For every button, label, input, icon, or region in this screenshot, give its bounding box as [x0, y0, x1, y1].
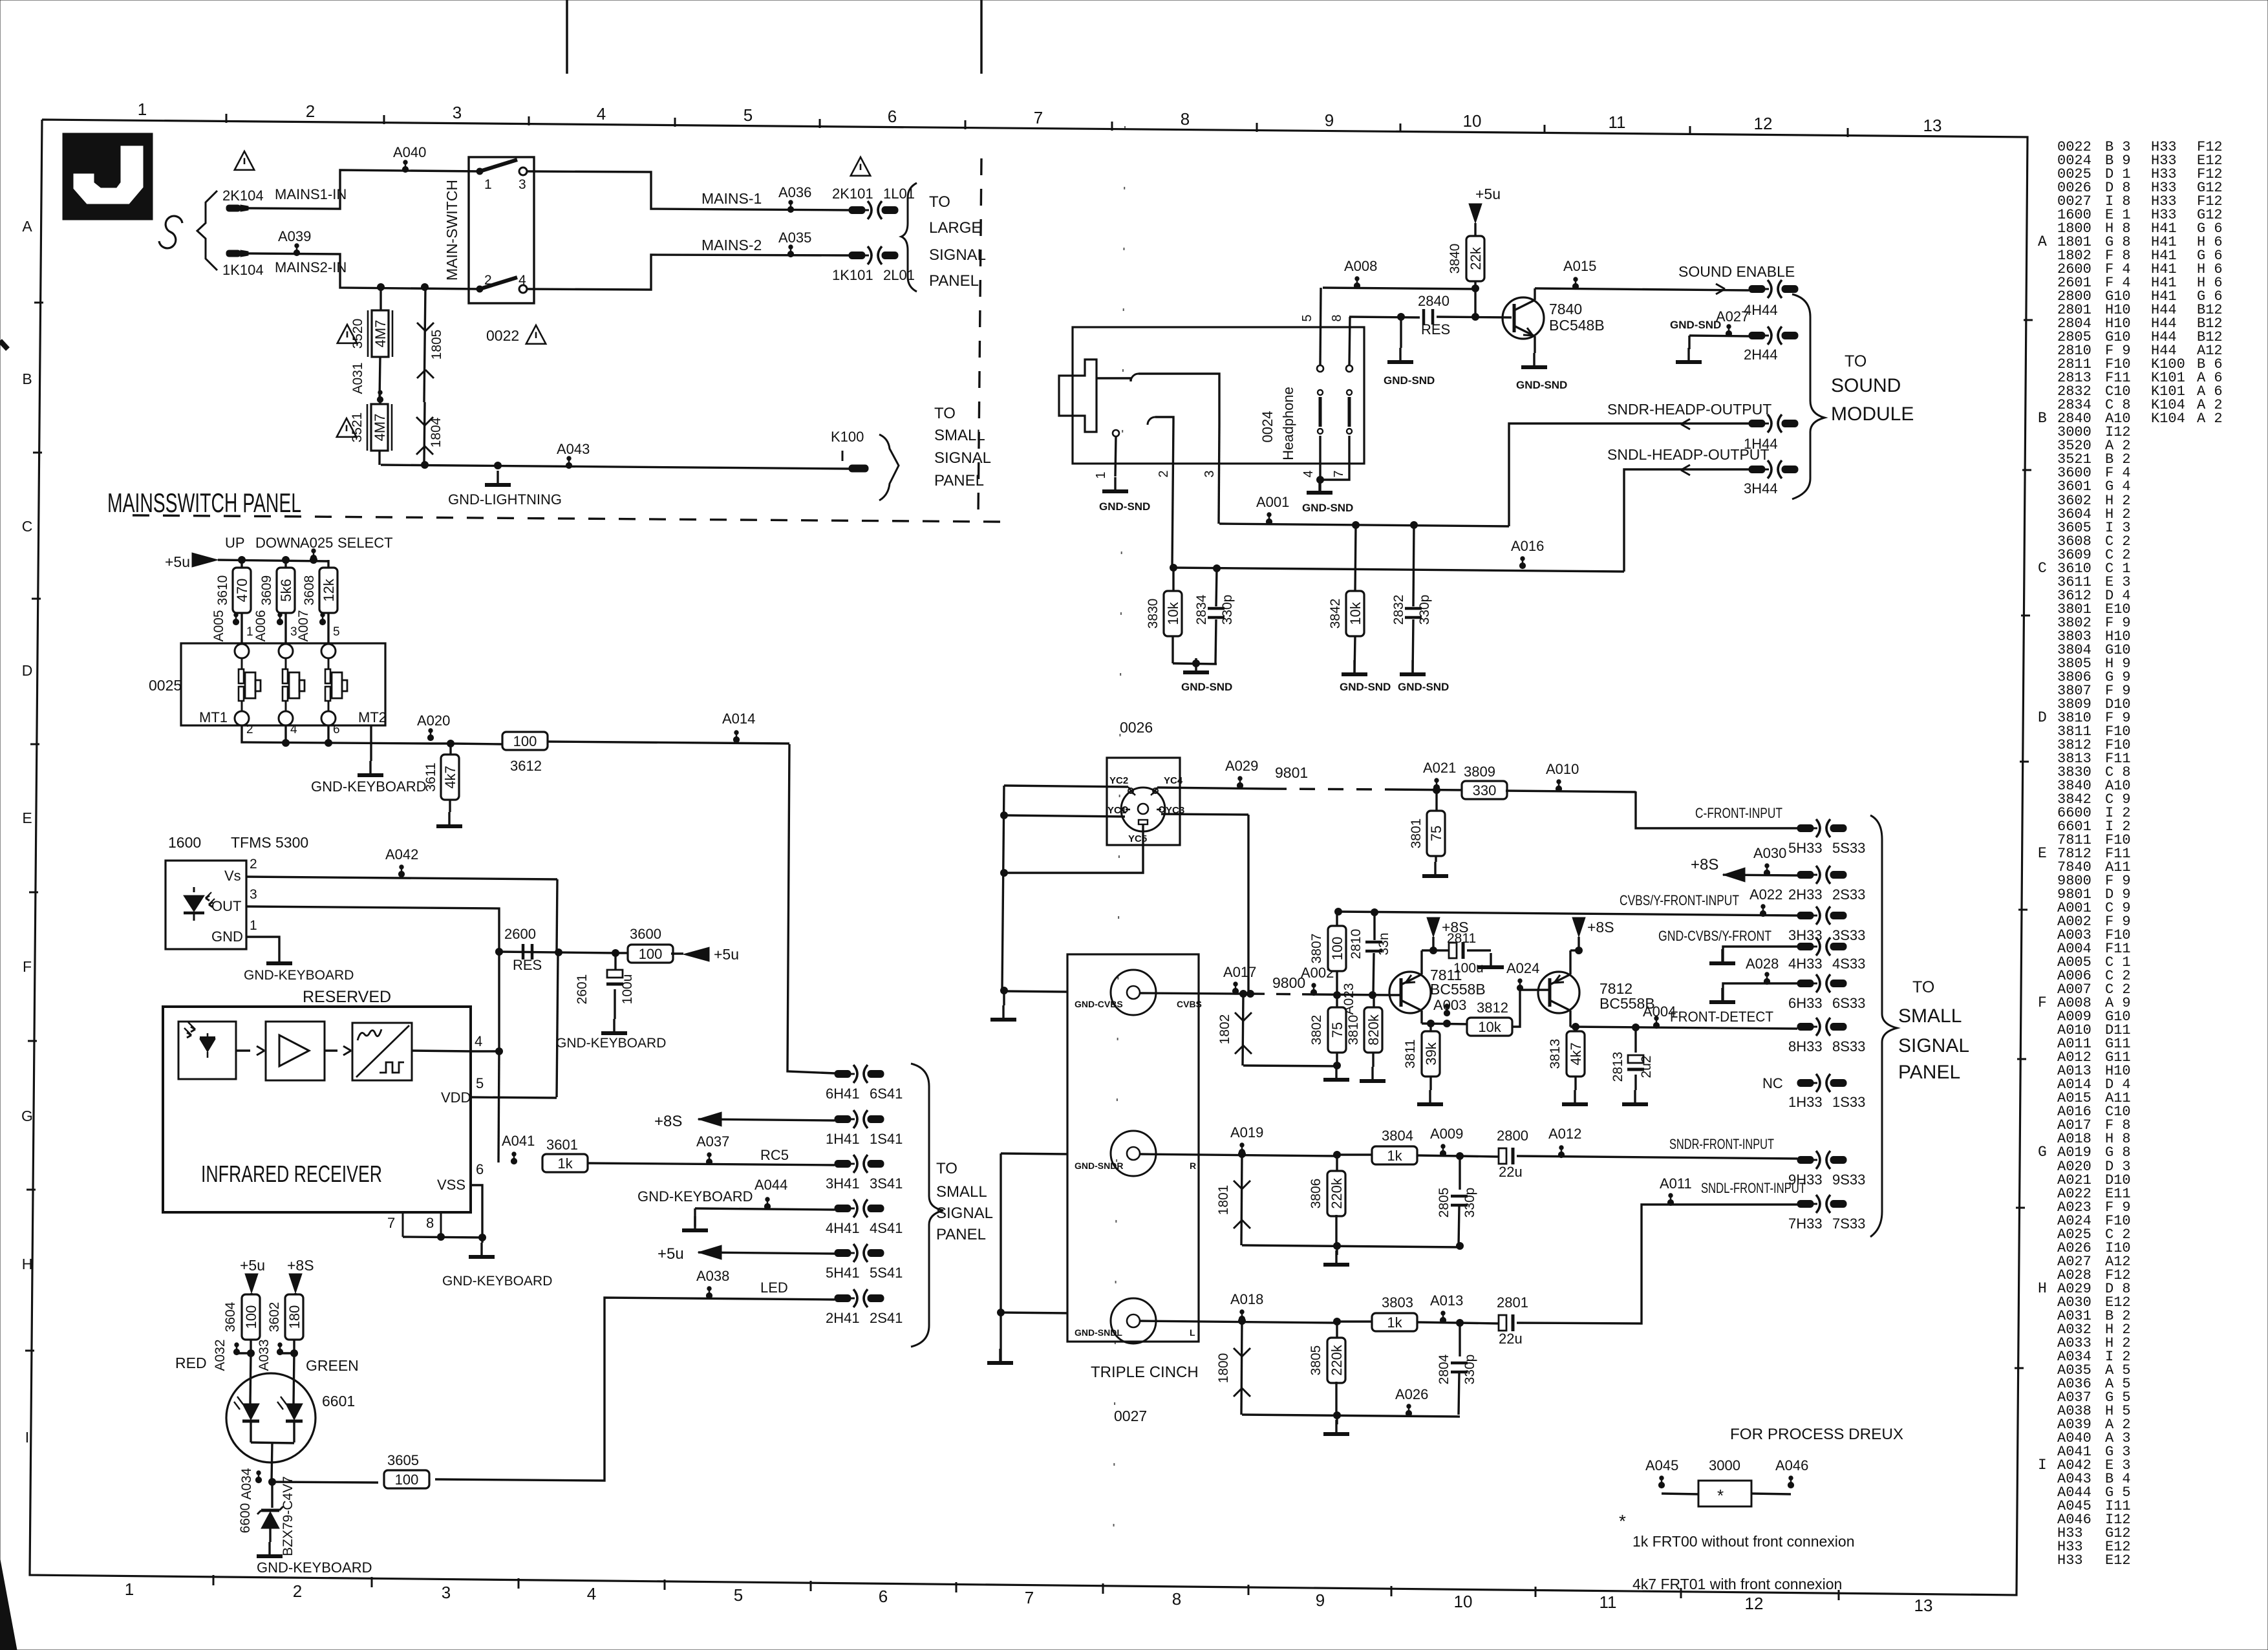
svg-text:1k: 1k	[1387, 1314, 1402, 1331]
svg-text:2K104: 2K104	[222, 187, 264, 204]
pin 2 wire	[1157, 422, 1173, 568]
node A010	[1506, 761, 1636, 792]
wire CVBS front input	[1335, 886, 1798, 917]
svg-text:220k: 220k	[1329, 1344, 1345, 1376]
svg-text:0022: 0022	[486, 327, 519, 344]
svg-text:100: 100	[243, 1305, 259, 1329]
svg-text:8: 8	[1172, 1589, 1181, 1609]
svg-text:A033: A033	[257, 1339, 272, 1371]
ground VSS	[442, 1237, 552, 1289]
connector 1H33 NC	[1762, 1074, 1865, 1110]
svg-text:A027: A027	[1716, 308, 1749, 325]
svg-text:E: E	[2038, 845, 2047, 862]
svg-text:3609: 3609	[259, 575, 274, 606]
svg-text:YC1: YC1	[1107, 805, 1126, 816]
svg-text:3802: 3802	[1309, 1015, 1324, 1045]
node A002	[1301, 965, 1389, 999]
node A043	[557, 441, 590, 469]
svg-text:A003: A003	[1433, 997, 1466, 1013]
IR sub-box demodulator	[352, 1023, 412, 1080]
node A035	[778, 230, 811, 257]
svg-text:A031: A031	[350, 362, 365, 394]
node A037 RC5	[586, 1133, 835, 1165]
wire 3605 to LED connector	[435, 1298, 835, 1481]
svg-text:4: 4	[587, 1584, 596, 1603]
svg-text:+8S: +8S	[1587, 919, 1614, 936]
svg-text:6H33: 6H33	[1788, 995, 1823, 1011]
pin 5 contact	[1300, 288, 1323, 434]
svg-text:RES: RES	[513, 957, 542, 973]
IR sub-box photodiode	[178, 1022, 236, 1079]
node A005	[211, 610, 253, 643]
sine symbol	[159, 216, 182, 248]
svg-text:12: 12	[1745, 1594, 1764, 1613]
svg-text:+5u: +5u	[1475, 186, 1501, 202]
svg-text:GND-KEYBOARD: GND-KEYBOARD	[311, 778, 426, 795]
svg-text:A045: A045	[1645, 1457, 1678, 1473]
svg-text:1801: 1801	[1216, 1185, 1231, 1216]
return line 1801	[1242, 1243, 1460, 1265]
svg-text:RESERVED: RESERVED	[303, 988, 391, 1006]
resistor 3601 1k	[542, 1137, 588, 1172]
svg-text:100: 100	[639, 946, 663, 962]
connector 3H33	[1788, 906, 1865, 943]
svg-text:1k FRT00 without front connexi: 1k FRT00 without front connexion	[1632, 1533, 1854, 1550]
svg-text:2800: 2800	[1497, 1128, 1528, 1144]
wire YC2 left	[1004, 786, 1133, 794]
reference designator list	[2038, 139, 2223, 1569]
TFMS pin labels	[211, 857, 257, 945]
svg-text:A032: A032	[213, 1339, 228, 1371]
svg-text:A043: A043	[557, 441, 590, 457]
svg-text:2805: 2805	[1437, 1188, 1451, 1218]
label MAINS-1	[701, 190, 762, 207]
svg-text:A 2: A 2	[2197, 411, 2223, 427]
svg-text:4H33: 4H33	[1788, 956, 1823, 972]
node A033	[257, 1339, 298, 1371]
svg-text:A036: A036	[778, 184, 811, 200]
svg-text:1: 1	[138, 100, 147, 119]
svg-text:DOWN: DOWN	[255, 535, 301, 551]
svg-text:22u: 22u	[1499, 1331, 1523, 1347]
+8S A030 2H33	[1691, 845, 1797, 882]
label C-FRONT-INPUT	[1695, 805, 1782, 821]
hosiden labels	[1107, 775, 1184, 844]
svg-text:*: *	[1717, 1486, 1724, 1505]
svg-text:3S41: 3S41	[870, 1175, 903, 1192]
resistor 3804 1k	[1337, 1128, 1417, 1164]
svg-text:A: A	[22, 218, 32, 235]
svg-text:C-FRONT-INPUT: C-FRONT-INPUT	[1695, 805, 1782, 821]
node A012	[1548, 1126, 1581, 1158]
connector 9H33	[1788, 1151, 1865, 1188]
input brace	[197, 191, 217, 270]
svg-text:A040: A040	[393, 144, 426, 160]
svg-text:+8S: +8S	[654, 1113, 682, 1130]
GND-SND A027 2H44	[1670, 308, 1749, 362]
node A009	[1417, 1126, 1464, 1160]
svg-text:3S33: 3S33	[1832, 927, 1865, 943]
dashed 9800	[1250, 974, 1314, 994]
svg-text:SNDL-FRONT-INPUT: SNDL-FRONT-INPUT	[1701, 1180, 1806, 1196]
svg-text:SNDR-HEADP-OUTPUT: SNDR-HEADP-OUTPUT	[1607, 401, 1771, 418]
svg-text:TO: TO	[1845, 352, 1867, 370]
labels 1600 TFMS 5300	[168, 834, 308, 851]
svg-text:1k: 1k	[1387, 1148, 1402, 1164]
svg-text:1S33: 1S33	[1832, 1094, 1865, 1110]
svg-text:1805: 1805	[429, 330, 444, 360]
svg-text:4: 4	[1301, 470, 1316, 477]
svg-text:+5u: +5u	[714, 946, 739, 963]
resistor 3610 470	[215, 560, 251, 613]
gnd 4H33	[1709, 947, 1797, 963]
node A021	[1386, 760, 1464, 794]
node A013	[1417, 1292, 1464, 1327]
wire YC5 down	[1001, 824, 1144, 877]
svg-text:A007: A007	[296, 610, 311, 641]
svg-text:3: 3	[250, 887, 257, 902]
svg-text:A013: A013	[1430, 1292, 1463, 1309]
resistor 3612 100	[451, 732, 548, 774]
label SNDR-HEADP-OUTPUT	[1607, 401, 1771, 418]
svg-text:LARGE: LARGE	[929, 219, 981, 237]
wire CVBS to transistor base	[1389, 994, 1401, 996]
cinch stub R	[1001, 1153, 1067, 1154]
svg-text:10k: 10k	[1347, 601, 1364, 625]
svg-text:+8S: +8S	[1691, 856, 1718, 873]
svg-text:11: 11	[1609, 112, 1626, 132]
svg-text:A026: A026	[1395, 1386, 1428, 1402]
svg-text:A041: A041	[502, 1133, 535, 1149]
svg-text:4: 4	[597, 104, 606, 123]
node A036	[778, 184, 811, 213]
TFMS photodiode symbol	[184, 887, 215, 921]
connector 2H33	[1788, 866, 1865, 903]
svg-text:5H41: 5H41	[826, 1265, 860, 1281]
svg-text:10: 10	[1463, 111, 1482, 131]
+8S 7811	[1422, 917, 1469, 954]
node A041	[502, 1133, 535, 1164]
fusible resistor 3520 4M7	[337, 287, 392, 357]
svg-text:A021: A021	[1423, 760, 1456, 776]
svg-text:YC2: YC2	[1109, 775, 1128, 786]
svg-text:100u: 100u	[620, 974, 635, 1005]
svg-text:2S33: 2S33	[1832, 886, 1865, 903]
svg-text:GND-SNDR: GND-SNDR	[1075, 1161, 1123, 1171]
svg-text:3610: 3610	[215, 575, 230, 606]
svg-text:A008: A008	[1344, 258, 1377, 274]
svg-text:1H41: 1H41	[826, 1131, 860, 1147]
svg-text:8H33: 8H33	[1788, 1038, 1823, 1055]
svg-text:5: 5	[333, 625, 340, 639]
transistor 7812 BC558B	[1538, 950, 1655, 1027]
pin 1 sleeve	[1094, 430, 1150, 513]
svg-text:A030: A030	[1753, 845, 1786, 861]
svg-text:6: 6	[888, 107, 897, 126]
svg-text:7: 7	[1332, 470, 1346, 477]
svg-text:1800: 1800	[1216, 1353, 1231, 1384]
resistor 3801 75	[1409, 790, 1448, 876]
svg-text:A010: A010	[1546, 761, 1579, 777]
svg-text:E: E	[22, 809, 32, 826]
svg-text:K100: K100	[831, 429, 864, 445]
svg-text:MAINS2-IN: MAINS2-IN	[275, 259, 347, 275]
headphone internal wires	[1097, 374, 1219, 425]
svg-text:NC: NC	[1762, 1075, 1783, 1091]
LED red	[234, 1353, 259, 1421]
label FOR PROCESS DREUX	[1730, 1426, 1903, 1443]
svg-text:GND-SND: GND-SND	[1384, 374, 1435, 387]
triple cinch box	[1067, 954, 1199, 1342]
svg-text:*: *	[1619, 1511, 1626, 1531]
svg-text:A: A	[2038, 233, 2047, 250]
dashed separator horizontal	[133, 515, 1001, 522]
fuse link 1802	[1217, 994, 1341, 1069]
svg-text:5: 5	[1300, 314, 1314, 321]
J logo block	[63, 133, 153, 220]
svg-text:RES: RES	[1421, 321, 1450, 337]
ground 3611	[436, 800, 462, 826]
capacitor 2800 22u	[1460, 1128, 1797, 1180]
svg-text:MAINSSWITCH PANEL: MAINSSWITCH PANEL	[107, 487, 301, 518]
+8S 7812	[1570, 917, 1614, 954]
svg-text:D: D	[2038, 709, 2047, 726]
svg-text:A019: A019	[1230, 1124, 1263, 1141]
connector A036-2K101-1L01	[832, 186, 915, 219]
node A045	[1645, 1457, 1678, 1488]
svg-text:A009: A009	[1430, 1126, 1463, 1142]
label 2K104 MAINS1-IN	[222, 186, 347, 204]
svg-text:A035: A035	[778, 230, 811, 246]
wire FRONT-DETECT	[1570, 1003, 1797, 1031]
svg-text:A014: A014	[722, 711, 755, 727]
svg-text:MAIN-SWITCH: MAIN-SWITCH	[444, 180, 460, 281]
svg-text:10k: 10k	[1165, 601, 1181, 625]
label 1K104 MAINS2-IN	[222, 259, 347, 278]
svg-text:A024: A024	[1506, 960, 1539, 976]
fuse link 1801	[1216, 1154, 1250, 1245]
connector 1K104 pin	[226, 250, 248, 257]
svg-text:C: C	[22, 518, 33, 535]
svg-text:A046: A046	[1775, 1457, 1808, 1473]
svg-text:A011: A011	[1660, 1175, 1692, 1192]
svg-text:3812: 3812	[1477, 1000, 1508, 1016]
IR photodiode symbol	[184, 1022, 215, 1058]
svg-text:6S41: 6S41	[870, 1086, 903, 1102]
svg-text:TFMS 5300: TFMS 5300	[231, 834, 308, 851]
connector 2H41/2S41	[826, 1289, 903, 1326]
svg-text:YC4: YC4	[1164, 775, 1183, 786]
svg-text:B: B	[2038, 410, 2047, 427]
fuse link 1804	[416, 402, 444, 463]
fold mark	[1113, 126, 1125, 1571]
svg-text:8S33: 8S33	[1832, 1038, 1865, 1055]
connector 4H41/4S41	[826, 1199, 903, 1236]
svg-text:2u2: 2u2	[1639, 1055, 1654, 1078]
svg-text:GND-KEYBOARD: GND-KEYBOARD	[257, 1559, 372, 1576]
fuse link 1800	[1216, 1321, 1250, 1415]
svg-text:4H41: 4H41	[826, 1220, 860, 1236]
node A014	[722, 711, 755, 743]
svg-text:3810: 3810	[1346, 1015, 1361, 1045]
svg-text:2832: 2832	[1391, 595, 1406, 625]
svg-text:3811: 3811	[1403, 1039, 1418, 1068]
wire YC1 left	[1001, 812, 1126, 819]
+8S arrow LED	[287, 1257, 314, 1295]
ground 2840	[1384, 314, 1435, 387]
node A024	[1506, 960, 1548, 1027]
svg-text:5k6: 5k6	[278, 579, 294, 601]
svg-text:2: 2	[293, 1581, 302, 1601]
svg-text:22k: 22k	[1468, 246, 1484, 270]
svg-text:1K104: 1K104	[222, 262, 264, 278]
svg-text:A018: A018	[1230, 1291, 1263, 1307]
label RED	[175, 1355, 207, 1371]
fuse link 1805	[417, 287, 444, 402]
svg-text:5: 5	[476, 1075, 484, 1091]
label SNDR-FRONT-INPUT	[1669, 1136, 1774, 1152]
resistor 3000	[1662, 1457, 1791, 1506]
svg-text:GND-SND: GND-SND	[1181, 681, 1232, 693]
label CVBS/Y-FRONT-INPUT	[1620, 892, 1739, 908]
svg-text:0025: 0025	[149, 677, 182, 694]
svg-text:3801: 3801	[1409, 819, 1424, 849]
resistor 3842 10k	[1328, 525, 1391, 693]
resistor 3807 100	[1309, 913, 1346, 995]
node A007	[296, 610, 340, 643]
wire 7811 collector	[1422, 1004, 1468, 1027]
svg-text:75: 75	[1329, 1022, 1345, 1038]
svg-text:SIGNAL: SIGNAL	[929, 246, 986, 264]
label 0022	[486, 325, 546, 344]
svg-text:GND-KEYBOARD: GND-KEYBOARD	[442, 1274, 552, 1289]
svg-text:3: 3	[1203, 470, 1217, 477]
svg-text:6: 6	[476, 1161, 484, 1177]
label MAINS-2	[701, 237, 762, 253]
svg-text:5S41: 5S41	[870, 1265, 903, 1281]
svg-text:3830: 3830	[1146, 599, 1161, 629]
svg-text:3804: 3804	[1382, 1128, 1413, 1144]
svg-text:2813: 2813	[1610, 1052, 1625, 1082]
svg-text:SNDR-FRONT-INPUT: SNDR-FRONT-INPUT	[1669, 1136, 1774, 1152]
svg-text:12: 12	[1754, 114, 1773, 133]
LED cathode bus	[251, 1421, 294, 1482]
+5u arrow LED	[240, 1257, 265, 1295]
wire A008	[1323, 258, 1475, 289]
svg-text:1600: 1600	[168, 834, 201, 851]
svg-text:A044: A044	[754, 1177, 787, 1193]
junction A020	[432, 740, 455, 747]
svg-text:A028: A028	[1746, 956, 1779, 972]
svg-text:FOR PROCESS DREUX: FOR PROCESS DREUX	[1730, 1426, 1903, 1443]
connector K100	[831, 429, 868, 472]
infrared receiver box	[163, 1007, 471, 1212]
svg-text:180: 180	[286, 1305, 303, 1329]
svg-text:SMALL: SMALL	[1898, 1005, 1962, 1027]
capacitor 2600 RES	[504, 926, 542, 973]
svg-text:2: 2	[246, 723, 253, 736]
bottom wire to K100	[381, 462, 849, 469]
wire mains1-in	[248, 170, 480, 209]
svg-text:2S41: 2S41	[870, 1310, 903, 1326]
svg-text:4S41: 4S41	[870, 1220, 903, 1236]
node A040	[393, 144, 426, 173]
svg-text:B: B	[22, 370, 32, 387]
svg-text:A015: A015	[1563, 258, 1596, 274]
resistor 3611 4k7	[423, 744, 459, 800]
svg-text:1: 1	[484, 177, 492, 192]
zener 6600 BZX79-C4V7	[238, 1476, 295, 1556]
svg-text:3H41: 3H41	[826, 1175, 860, 1192]
registration mark	[567, 0, 981, 74]
svg-text:C: C	[2038, 560, 2047, 577]
connector 4H44	[1744, 280, 1798, 318]
hosiden pins	[1122, 788, 1164, 812]
svg-text:TRIPLE CINCH: TRIPLE CINCH	[1091, 1364, 1199, 1381]
capacitor 2804 330p	[1437, 1323, 1477, 1415]
svg-text:SMALL: SMALL	[934, 427, 985, 444]
connector A035-1K101-2L01	[832, 246, 915, 283]
svg-text:A006: A006	[253, 610, 268, 641]
IR sub-box amplifier	[266, 1022, 325, 1080]
wire YC4 right A029	[1153, 758, 1271, 794]
resistor 3802 75	[1309, 995, 1349, 1080]
svg-text:MAINS1-IN: MAINS1-IN	[275, 186, 347, 202]
svg-text:1: 1	[125, 1580, 134, 1599]
capacitor 2834 330p	[1194, 565, 1235, 664]
svg-text:2H33: 2H33	[1788, 886, 1823, 903]
svg-text:GND-SND: GND-SND	[1340, 681, 1391, 693]
svg-text:SIGNAL: SIGNAL	[934, 449, 991, 467]
svg-text:A004: A004	[1643, 1003, 1676, 1020]
node A046	[1775, 1457, 1808, 1488]
svg-text:INFRARED RECEIVER: INFRARED RECEIVER	[201, 1161, 382, 1187]
svg-text:SIGNAL: SIGNAL	[936, 1205, 993, 1222]
svg-text:MODULE: MODULE	[1831, 403, 1914, 425]
OUT bus down to RC5	[496, 948, 503, 1163]
svg-text:4M7: 4M7	[372, 320, 389, 348]
pin 3 wire	[1203, 425, 1219, 524]
svg-text:6600: 6600	[238, 1503, 253, 1534]
headphone plug symbol	[1059, 359, 1097, 432]
wire SNDL up to 7H33	[1517, 1194, 1797, 1323]
wire mains2-in	[248, 253, 480, 289]
pin 8 contact	[1330, 314, 1353, 434]
svg-text:I: I	[25, 1429, 29, 1446]
svg-text:39k: 39k	[1423, 1042, 1439, 1065]
connector 2H44	[1744, 327, 1798, 363]
svg-text:3602: 3602	[267, 1302, 282, 1333]
svg-text:3813: 3813	[1548, 1039, 1563, 1069]
wire Vs-A042	[246, 877, 557, 879]
svg-text:1K101: 1K101	[832, 267, 873, 283]
svg-text:13: 13	[1923, 116, 1942, 135]
svg-text:3H44: 3H44	[1744, 480, 1778, 497]
svg-text:6: 6	[333, 723, 340, 736]
svg-text:MT2: MT2	[358, 709, 387, 725]
svg-text:6601: 6601	[322, 1393, 355, 1409]
resistor 3810 820k	[1346, 995, 1385, 1081]
resistor 3605 100	[272, 1452, 429, 1488]
svg-text:TO: TO	[936, 1160, 957, 1177]
svg-text:GND-KEYBOARD: GND-KEYBOARD	[556, 1036, 666, 1051]
ground 6600	[257, 1528, 372, 1576]
svg-text:A038: A038	[696, 1268, 729, 1284]
push button UP (pins 1-2)	[235, 644, 261, 736]
svg-text:1802: 1802	[1217, 1014, 1232, 1045]
svg-text:7: 7	[1025, 1588, 1034, 1607]
svg-text:4k7 FRT01 with front connexion: 4k7 FRT01 with front connexion	[1632, 1576, 1842, 1592]
